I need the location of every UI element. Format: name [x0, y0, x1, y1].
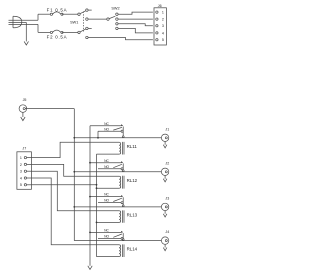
svg-text:SW1: SW1	[70, 21, 78, 25]
svg-text:2: 2	[162, 18, 164, 22]
svg-text:J7: J7	[22, 147, 26, 151]
svg-text:NO: NO	[104, 235, 109, 239]
svg-text:NO: NO	[104, 127, 109, 131]
svg-text:3: 3	[162, 24, 164, 28]
svg-text:NC: NC	[104, 193, 109, 197]
svg-text:1: 1	[162, 11, 164, 15]
svg-text:NC: NC	[104, 122, 109, 126]
svg-text:F1 0.5A: F1 0.5A	[47, 7, 68, 12]
svg-text:J2: J2	[165, 161, 169, 165]
svg-text:RL11: RL11	[127, 144, 138, 149]
svg-text:RL14: RL14	[127, 247, 138, 252]
svg-text:J1: J1	[165, 127, 169, 131]
svg-text:J6: J6	[158, 4, 162, 8]
svg-text:J3: J3	[165, 197, 169, 201]
svg-text:NO: NO	[104, 199, 109, 203]
svg-text:4: 4	[162, 31, 164, 35]
svg-text:NO: NO	[104, 165, 109, 169]
svg-text:RL13: RL13	[127, 213, 138, 218]
svg-text:5: 5	[20, 183, 22, 187]
svg-text:F2 0.5A: F2 0.5A	[47, 35, 68, 40]
svg-text:NC: NC	[104, 159, 109, 163]
svg-text:RL12: RL12	[127, 178, 138, 183]
svg-text:SW2: SW2	[111, 6, 119, 10]
svg-text:J5: J5	[23, 98, 27, 102]
svg-text:1: 1	[20, 156, 22, 160]
svg-text:2: 2	[20, 163, 22, 167]
svg-text:4: 4	[20, 176, 22, 180]
svg-text:NC: NC	[104, 229, 109, 233]
svg-text:3: 3	[20, 170, 22, 174]
svg-text:J4: J4	[165, 230, 169, 234]
svg-text:5: 5	[162, 38, 164, 42]
